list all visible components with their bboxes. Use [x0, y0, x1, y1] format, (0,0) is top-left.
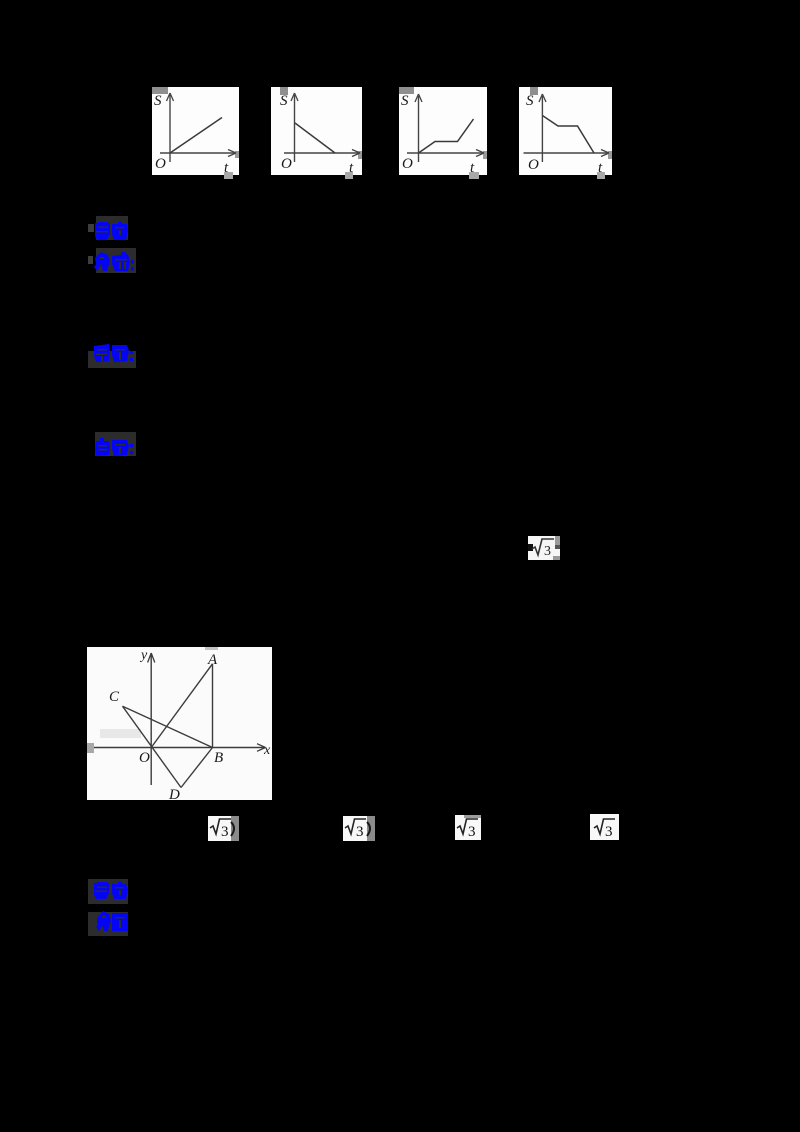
graph box 3 (S-t graph, rise, plateau, steeper rise): [399, 87, 487, 175]
blue label 1 bullet square: [88, 224, 94, 232]
svg-text:O: O: [402, 156, 413, 172]
sqrt3 patch row item 3: [455, 815, 481, 840]
blue label 4 backing: [95, 432, 136, 456]
line D-B: [181, 748, 213, 788]
svg-text:O: O: [528, 157, 539, 173]
svg-text:3: 3: [605, 824, 613, 840]
box2 bottom smudge: [345, 172, 353, 179]
svg-text:3: 3: [468, 824, 476, 840]
box4 bottom smudge: [597, 172, 605, 179]
svg-text:B: B: [214, 750, 223, 766]
svg-text:S: S: [401, 93, 409, 109]
blue label 6 backing: [88, 912, 128, 936]
svg-text:3: 3: [544, 544, 551, 559]
x-axis: [94, 747, 264, 749]
box3 bottom smudge: [469, 172, 479, 179]
box1 bottom smudge: [224, 172, 233, 179]
blue label 5 (kaodian): [94, 882, 128, 899]
svg-text:y: y: [139, 648, 148, 663]
sqrt3 patch row item 1: [206, 815, 239, 841]
line C-D through O: [123, 706, 182, 787]
blue label 6 (fenxi, dense): [96, 911, 128, 931]
svg-text:D: D: [168, 787, 180, 800]
segment A-B: [212, 664, 214, 748]
sqrt3 formula patch (inline, mid page): [528, 536, 560, 560]
blue label 2 (fenxi:): [94, 252, 134, 272]
svg-text:C: C: [109, 689, 120, 705]
sqrt3 patch row item 4: [590, 814, 619, 840]
svg-text:O: O: [155, 156, 166, 172]
graph box 1 (S-t graph, straight rising line): [152, 87, 239, 175]
svg-text:S: S: [526, 93, 534, 109]
blue label 4 (dianping:): [95, 438, 133, 456]
line C-B: [123, 706, 213, 747]
svg-text:O: O: [139, 750, 150, 766]
blue label 1 (kaodian): [95, 222, 128, 240]
line O-A: [151, 664, 212, 748]
graph box 4 (S-t graph, drop, plateau, drop to axis): [519, 87, 612, 175]
graph box 2 (S-t graph, falling line to axis): [271, 87, 362, 175]
svg-text:3: 3: [356, 824, 364, 840]
blue label 2 backing: [96, 248, 136, 273]
blue label 3 (jieda:): [94, 344, 133, 362]
blue label 1 backing: [96, 216, 128, 240]
svg-text:S: S: [154, 93, 162, 109]
blue label 2 bullet square: [88, 256, 93, 264]
sqrt3 patch row item 2: [341, 815, 375, 841]
blue label 3 backing: [88, 351, 136, 368]
svg-text:A: A: [207, 652, 218, 668]
coordinate figure box: [87, 647, 272, 800]
y-axis: [150, 655, 152, 786]
svg-text:3: 3: [221, 824, 229, 840]
svg-text:S: S: [280, 93, 288, 109]
blue label 5 backing: [88, 879, 128, 904]
svg-text:x: x: [263, 743, 271, 758]
svg-text:O: O: [281, 156, 292, 172]
